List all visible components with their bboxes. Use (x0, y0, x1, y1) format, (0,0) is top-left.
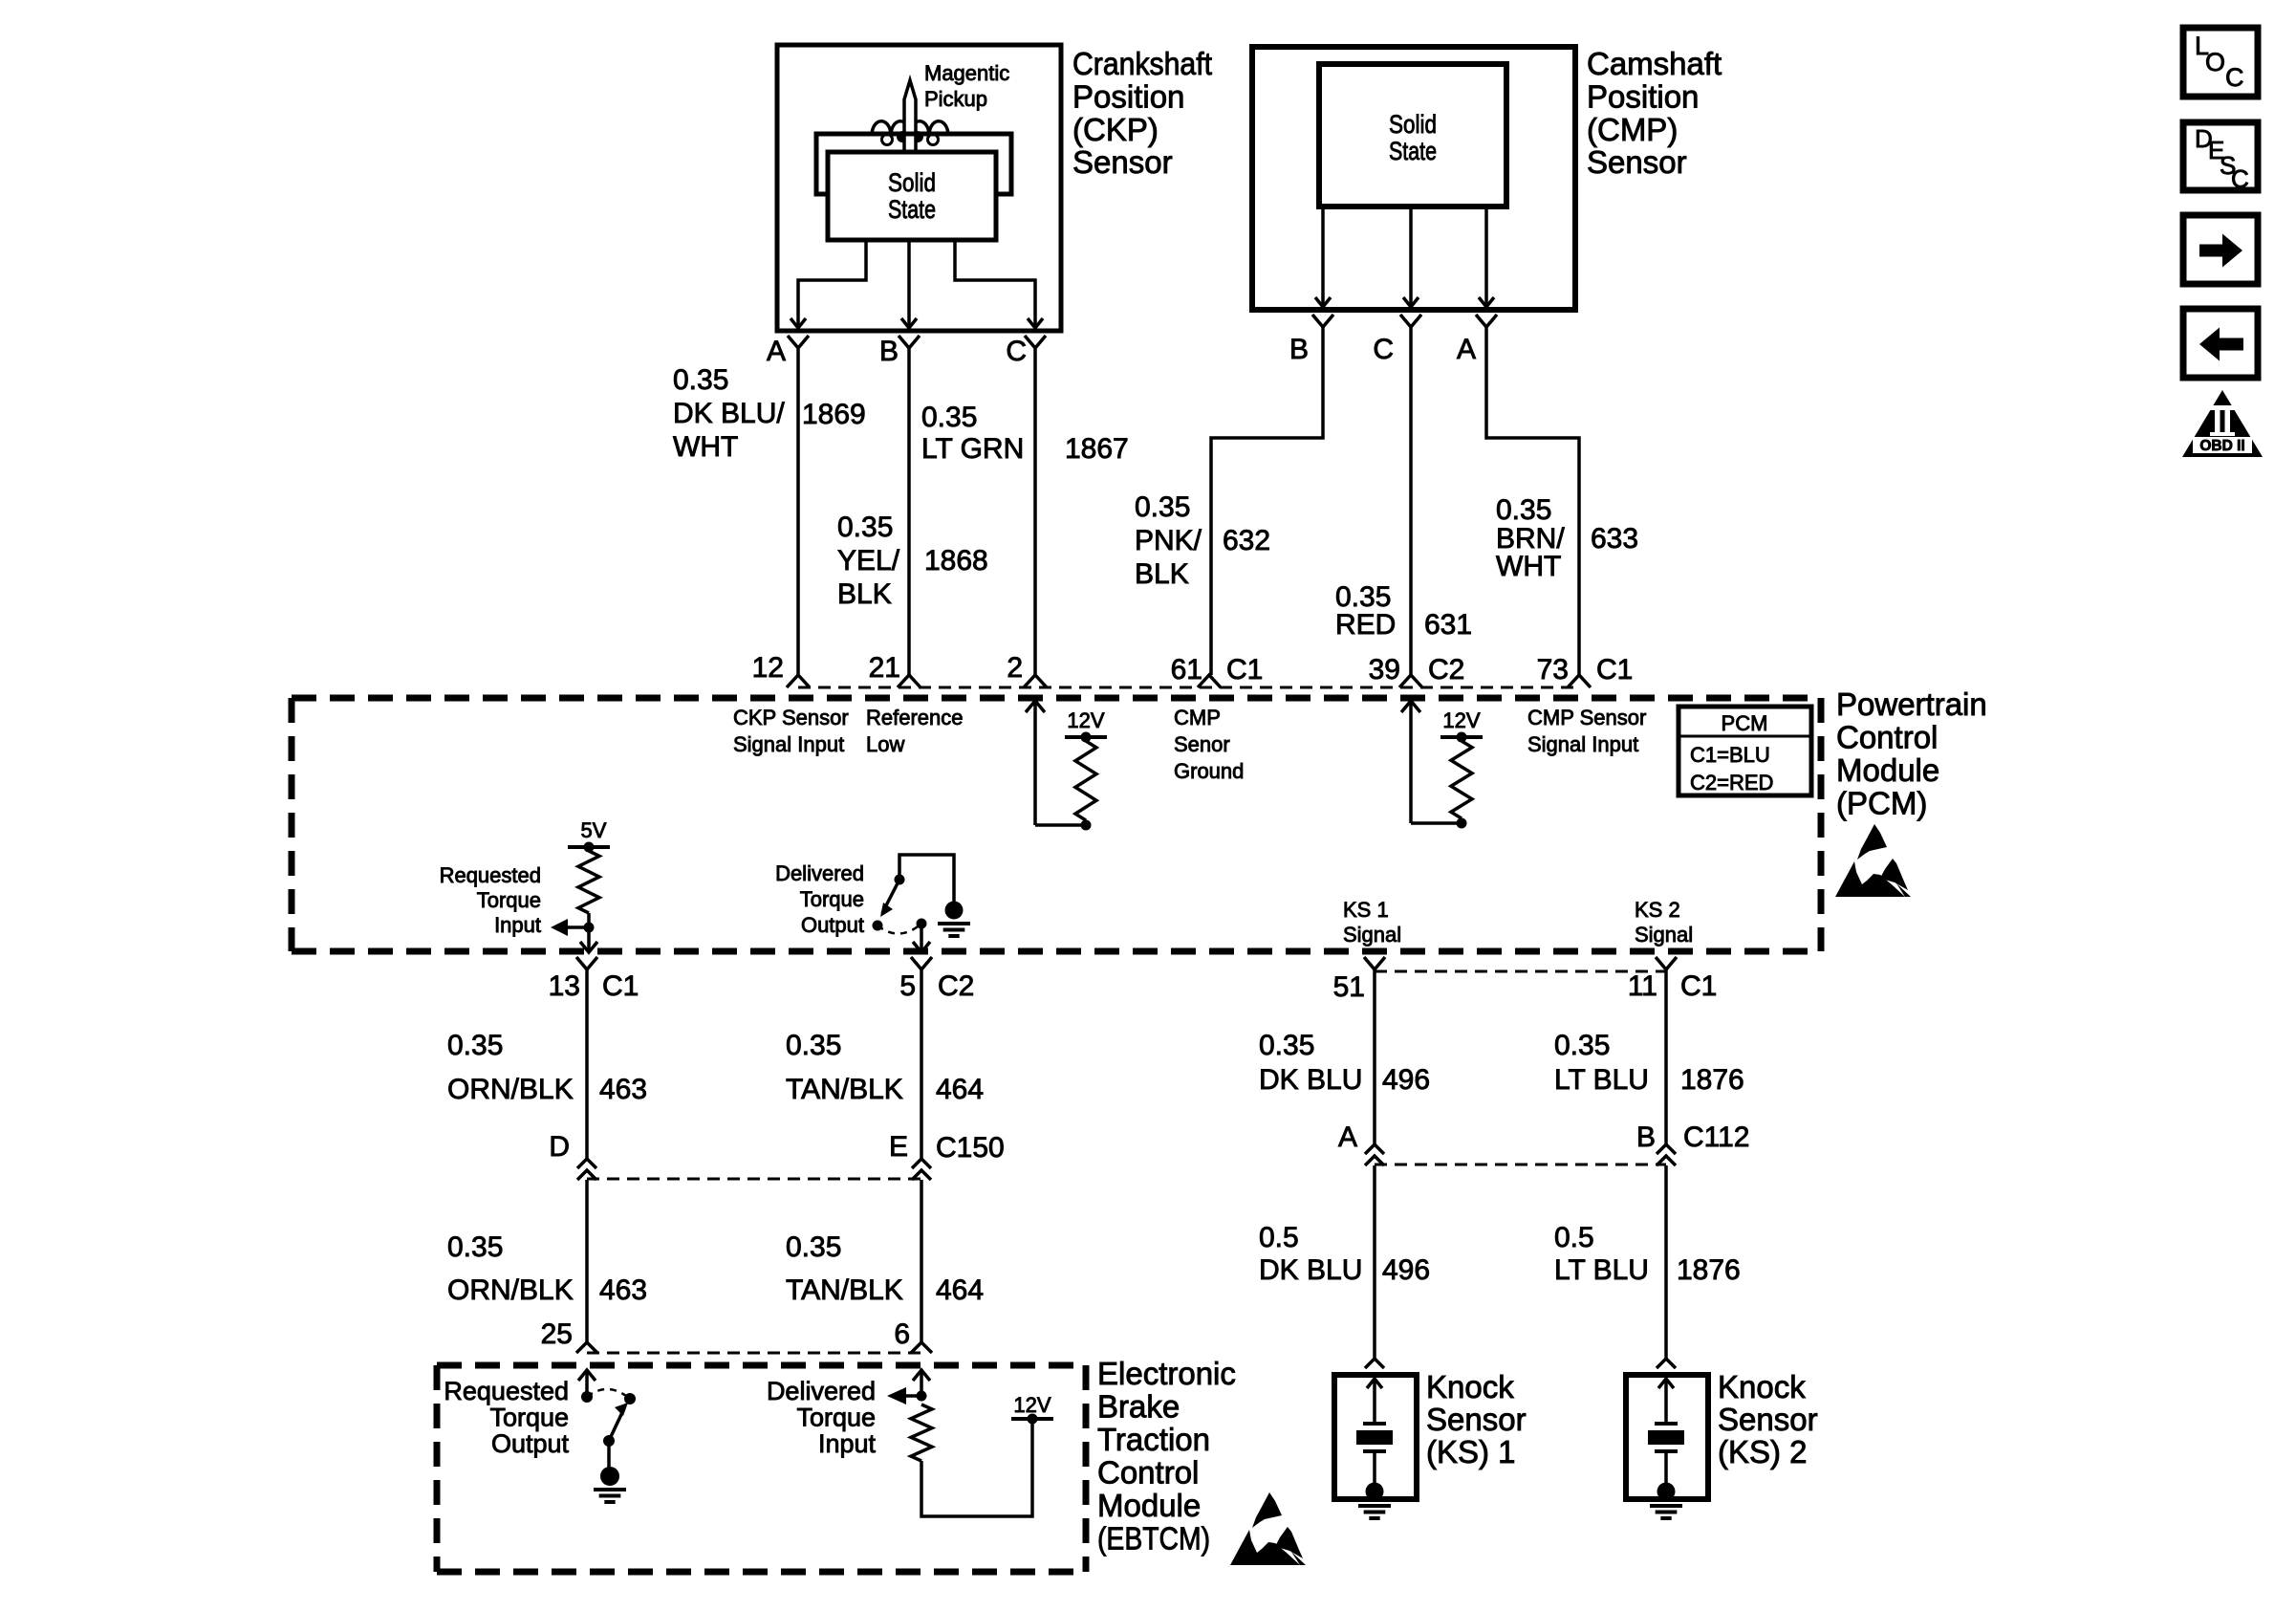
wire 633 BRN/WHT (CMP A to PCM 73) (1486, 327, 1579, 675)
svg-text:632: 632 (1223, 525, 1270, 556)
PCM module dashed border (292, 695, 1821, 702)
svg-text:A: A (1457, 334, 1476, 365)
svg-text:D: D (549, 1131, 570, 1163)
svg-text:C2: C2 (1428, 654, 1464, 686)
svg-text:Magentic: Magentic (924, 61, 1009, 85)
svg-text:0.35: 0.35 (786, 1231, 841, 1263)
wire 464 TAN/BLK lower (920, 1180, 923, 1342)
svg-text:0.35: 0.35 (447, 1030, 503, 1061)
CKP pin B connector (899, 336, 920, 348)
CKP pin C connector (1025, 336, 1046, 348)
svg-text:ORN/BLK: ORN/BLK (447, 1074, 574, 1105)
switch S1 contact dot (873, 921, 883, 931)
wire CMP stub C (1409, 207, 1413, 295)
svg-text:Low: Low (866, 732, 904, 756)
wire CMP stub A (1484, 207, 1488, 295)
svg-text:12V: 12V (1013, 1393, 1051, 1417)
icon OBD II triangle (2182, 390, 2263, 457)
svg-text:1876: 1876 (1677, 1254, 1741, 1286)
svg-text:464: 464 (936, 1074, 984, 1105)
connector C150 pin E (912, 1159, 931, 1168)
svg-text:Position: Position (1072, 79, 1184, 115)
svg-text:Output: Output (491, 1429, 570, 1458)
svg-text:Reference: Reference (866, 706, 964, 729)
svg-text:(EBTCM): (EBTCM) (1097, 1521, 1210, 1557)
wire 1867 LT GRN (CKP C to PCM 2) (1033, 348, 1037, 675)
svg-text:0.35: 0.35 (837, 512, 893, 543)
svg-text:(CMP): (CMP) (1587, 112, 1678, 147)
arrow into pin C(CMP) (1403, 297, 1419, 307)
resistor R2 (12V pull-up CMP) (1451, 741, 1472, 818)
svg-text:2: 2 (1007, 652, 1023, 684)
svg-text:C1: C1 (1596, 654, 1633, 686)
svg-text:Module: Module (1097, 1488, 1201, 1523)
svg-text:Sensor: Sensor (1426, 1402, 1527, 1437)
PCM top pin tent x=1265 (1198, 675, 1221, 687)
KS2 box (1626, 1375, 1708, 1499)
arrow into pin A (791, 318, 806, 328)
svg-text:(KS) 2: (KS) 2 (1718, 1434, 1808, 1469)
svg-text:Input: Input (818, 1429, 877, 1458)
svg-text:C: C (1373, 334, 1394, 365)
wire 631 RED (CMP C to PCM 39) (1409, 327, 1413, 675)
svg-text:A: A (767, 336, 786, 367)
wire 632 PNK/BLK (CMP B to PCM 61) (1211, 327, 1323, 675)
wire 1868 YEL/BLK (CKP B to PCM 21) (907, 348, 911, 675)
switch S2 lever (609, 1408, 624, 1441)
wire CMP stub B (1321, 207, 1325, 295)
svg-text:Brake: Brake (1097, 1389, 1180, 1425)
svg-text:0.35: 0.35 (921, 402, 977, 433)
svg-text:21: 21 (869, 652, 900, 684)
svg-text:Senor: Senor (1174, 732, 1230, 756)
switch S2 wire dot (581, 1391, 593, 1403)
icon forward arrow box (2183, 215, 2258, 284)
resistor R1 (12V pull-up CKP) (1075, 741, 1096, 820)
svg-text:Crankshaft: Crankshaft (1072, 46, 1212, 81)
ESD symbol (EBTCM) (1252, 1492, 1282, 1528)
arrow into pin B (901, 318, 917, 328)
delivered torque arrow up (913, 1370, 930, 1381)
svg-text:Signal Input: Signal Input (733, 732, 844, 756)
svg-text:B: B (1289, 334, 1309, 365)
wire pin2 internal (1026, 701, 1045, 712)
PCM bottom pin Y x=964 (911, 957, 932, 969)
wire to pin 5 (920, 924, 923, 952)
svg-text:C1: C1 (1680, 970, 1717, 1002)
KS2 pin tent (1657, 1359, 1676, 1368)
svg-text:Powertrain: Powertrain (1836, 686, 1987, 722)
svg-text:0.35: 0.35 (786, 1030, 841, 1061)
EBTCM pin 6 tent (911, 1342, 932, 1353)
arrow into pin C (1028, 318, 1043, 328)
svg-text:A: A (1338, 1121, 1357, 1153)
KS1 ground (1358, 1504, 1391, 1508)
KS pins dashed line (1375, 970, 1666, 973)
svg-text:C: C (2231, 164, 2249, 193)
svg-text:WHT: WHT (1496, 551, 1561, 582)
svg-text:11: 11 (1628, 970, 1657, 1002)
CKP sensor outer box (777, 45, 1061, 331)
svg-text:(KS) 1: (KS) 1 (1426, 1434, 1516, 1469)
svg-text:C: C (1006, 336, 1027, 367)
wire 1869 DK BLU/WHT (CKP A to PCM 12) (796, 348, 800, 675)
arrow into pin A(CMP) (1479, 297, 1494, 307)
resistor R4 (EBTCM) (911, 1404, 932, 1461)
requested torque input arrow (557, 925, 589, 929)
EBTCM pin 25 tent (576, 1342, 597, 1353)
pickup bracket frame (816, 134, 1011, 194)
switch S1 dashed arc (877, 924, 921, 934)
switch S1 pivot dot (895, 875, 905, 885)
svg-text:633: 633 (1591, 523, 1638, 555)
svg-text:Control: Control (1097, 1455, 1199, 1491)
svg-text:C2: C2 (938, 970, 974, 1002)
svg-text:B: B (1636, 1121, 1656, 1153)
switch S2 pivot dot (603, 1435, 615, 1447)
svg-text:Torque: Torque (477, 888, 541, 912)
svg-text:CMP Sensor: CMP Sensor (1527, 706, 1646, 729)
CMP sensor outer box (1252, 47, 1575, 310)
KS1 piezo element (1363, 1422, 1386, 1426)
wire 1876 LT BLU upper (1664, 969, 1668, 1144)
svg-text:1867: 1867 (1065, 433, 1129, 465)
svg-text:496: 496 (1382, 1254, 1430, 1286)
CKP pin A connector (788, 336, 809, 348)
KS1 box (1334, 1375, 1417, 1499)
node dot (R2 bottom) (1457, 818, 1467, 829)
12V supply bar (EBTCM) (1011, 1417, 1053, 1421)
svg-text:Position: Position (1587, 79, 1699, 115)
svg-text:LT BLU: LT BLU (1554, 1254, 1649, 1286)
CMP pin C connector (1400, 315, 1421, 327)
KS2 piezo element (1655, 1422, 1678, 1426)
svg-text:12V: 12V (1067, 708, 1104, 732)
svg-text:0.35: 0.35 (1135, 491, 1190, 523)
svg-text:RED: RED (1335, 609, 1396, 641)
svg-text:61: 61 (1171, 654, 1202, 686)
svg-text:DK BLU/: DK BLU/ (673, 398, 785, 429)
svg-text:C1: C1 (602, 970, 639, 1002)
svg-text:(PCM): (PCM) (1836, 786, 1927, 821)
CMP pin A connector (1476, 315, 1497, 327)
svg-text:5: 5 (899, 970, 916, 1002)
svg-text:OBD II: OBD II (2199, 438, 2244, 454)
svg-text:39: 39 (1369, 654, 1400, 686)
KS2 internal arrow (1658, 1379, 1674, 1388)
svg-text:Signal: Signal (1343, 923, 1401, 947)
svg-text:Solid: Solid (888, 168, 936, 197)
wire 1876 LT BLU lower (1664, 1165, 1668, 1359)
svg-text:State: State (1389, 137, 1437, 165)
PCM bottom pin Y x=1743 (1656, 957, 1677, 969)
svg-text:C1=BLU: C1=BLU (1690, 743, 1770, 767)
svg-text:C: C (2225, 63, 2244, 92)
EBTCM module dashed border (437, 1362, 1086, 1369)
svg-text:Electronic: Electronic (1097, 1356, 1236, 1391)
wire R3 to pin13 (587, 913, 591, 952)
PCM top pin tent x=835 (787, 675, 810, 687)
node dot (R1 bottom) (1081, 820, 1092, 831)
PCM bottom pin Y x=614 (576, 957, 597, 969)
PCM connector dashed line (798, 686, 1579, 689)
svg-text:Input: Input (494, 913, 541, 937)
svg-text:631: 631 (1424, 609, 1472, 641)
arrow down to pin 13 (580, 942, 597, 952)
node dot pin5 (917, 919, 927, 929)
svg-text:TAN/BLK: TAN/BLK (786, 1074, 903, 1105)
svg-text:Control: Control (1836, 720, 1938, 755)
delivered torque left arrow (906, 1394, 921, 1398)
wire 464 TAN/BLK upper (920, 969, 923, 1159)
svg-text:DK BLU: DK BLU (1259, 1064, 1362, 1096)
EBTCM pins dashed line (587, 1352, 921, 1355)
PCM bottom pin Y x=1438 (1364, 957, 1385, 969)
PCM top pin tent x=1652 (1568, 675, 1591, 687)
svg-text:C150: C150 (936, 1132, 1005, 1164)
svg-text:Requested: Requested (440, 863, 541, 887)
switch S1 lever (882, 880, 899, 913)
svg-text:Sensor: Sensor (1587, 144, 1687, 180)
svg-text:25: 25 (541, 1318, 573, 1350)
wire 496 DK BLU upper (1373, 969, 1376, 1144)
CKP solid state box (828, 152, 996, 240)
svg-text:13: 13 (549, 970, 580, 1002)
svg-text:State: State (888, 195, 936, 224)
svg-text:Signal Input: Signal Input (1527, 732, 1638, 756)
svg-text:0.35: 0.35 (673, 364, 728, 396)
svg-text:0.35: 0.35 (1259, 1030, 1314, 1061)
svg-text:Solid: Solid (1389, 110, 1437, 139)
svg-text:PNK/: PNK/ (1135, 525, 1202, 556)
12V supply bar (R1) (1065, 735, 1107, 739)
requested torque arrow up (578, 1370, 596, 1381)
svg-text:0.35: 0.35 (447, 1231, 503, 1263)
CMP solid state box (1319, 64, 1506, 207)
connector C112 dashed line (1375, 1164, 1666, 1166)
connector C112 pin B (1657, 1144, 1676, 1154)
PCM top pin tent x=951 (898, 675, 921, 687)
svg-text:1868: 1868 (924, 545, 988, 577)
svg-text:C2=RED: C2=RED (1690, 771, 1773, 795)
svg-text:CKP Sensor: CKP Sensor (733, 706, 849, 729)
svg-text:Pickup: Pickup (924, 87, 987, 111)
CMP pin B connector (1312, 315, 1333, 327)
PCM top pin tent x=1083 (1024, 675, 1047, 687)
svg-text:1876: 1876 (1680, 1064, 1744, 1096)
switch S2 dashed arc (587, 1389, 630, 1399)
svg-text:Torque: Torque (800, 887, 864, 911)
svg-text:0.35: 0.35 (1554, 1030, 1610, 1061)
svg-text:0.35: 0.35 (1496, 494, 1551, 526)
svg-text:Signal: Signal (1635, 923, 1693, 947)
svg-text:BLK: BLK (1135, 558, 1189, 590)
svg-text:Traction: Traction (1097, 1422, 1210, 1457)
wire pin39 internal (1401, 701, 1420, 712)
wire CKP stub B (907, 240, 911, 316)
svg-text:Torque: Torque (796, 1404, 876, 1432)
svg-text:12V: 12V (1442, 708, 1480, 732)
svg-text:LT BLU: LT BLU (1554, 1064, 1649, 1096)
svg-text:Ground: Ground (1174, 759, 1244, 783)
arrow into pin B(CMP) (1315, 297, 1331, 307)
svg-text:Knock: Knock (1718, 1369, 1806, 1404)
KS1 internal arrow (1367, 1379, 1382, 1388)
connector C150 dashed line (587, 1178, 921, 1181)
svg-text:Sensor: Sensor (1072, 144, 1173, 180)
wire 463 ORN/BLK lower (585, 1180, 589, 1342)
svg-text:Delivered: Delivered (775, 861, 864, 885)
svg-text:C1: C1 (1226, 654, 1263, 686)
svg-text:B: B (879, 336, 899, 367)
switch S1 bracket (899, 855, 954, 902)
svg-text:Module: Module (1836, 752, 1939, 788)
svg-text:BLK: BLK (837, 578, 892, 610)
resistor R3 (5V pull-up) (578, 851, 599, 913)
svg-text:5V: 5V (581, 818, 607, 842)
svg-text:KS 1: KS 1 (1343, 898, 1389, 922)
svg-text:Camshaft: Camshaft (1587, 46, 1722, 81)
svg-text:O: O (2205, 48, 2225, 76)
PCM top pin tent x=1476 (1399, 675, 1422, 687)
svg-text:1869: 1869 (802, 399, 866, 430)
ground G1 (PCM) (945, 902, 964, 920)
svg-text:CMP: CMP (1174, 706, 1221, 729)
svg-text:KS 2: KS 2 (1635, 898, 1680, 922)
12V supply bar (R2) (1440, 735, 1483, 739)
svg-text:ORN/BLK: ORN/BLK (447, 1274, 574, 1306)
svg-text:C112: C112 (1683, 1121, 1750, 1153)
svg-text:73: 73 (1537, 654, 1569, 686)
icon back arrow box (2183, 309, 2258, 378)
KS2 ground ball (1657, 1483, 1676, 1501)
svg-text:E: E (889, 1131, 908, 1163)
pickup coil L1 (872, 121, 948, 135)
connector C112 pin A (1365, 1144, 1384, 1154)
svg-text:463: 463 (599, 1274, 647, 1306)
svg-text:YEL/: YEL/ (837, 545, 900, 577)
pickup needle (904, 80, 916, 153)
svg-text:Torque: Torque (489, 1404, 569, 1432)
svg-text:0.5: 0.5 (1259, 1222, 1299, 1253)
svg-text:6: 6 (894, 1318, 910, 1350)
wire R4 to 12V (921, 1419, 1032, 1516)
svg-text:LT GRN: LT GRN (921, 433, 1024, 465)
switch S2 contact dot (624, 1393, 636, 1404)
KS1 ground ball (1366, 1483, 1384, 1501)
svg-text:0.5: 0.5 (1554, 1222, 1594, 1253)
svg-text:PCM: PCM (1722, 711, 1768, 735)
svg-text:463: 463 (599, 1074, 647, 1105)
svg-text:Requested: Requested (444, 1377, 569, 1405)
wire CKP stub C (955, 240, 1035, 316)
KS1 pin tent (1365, 1359, 1384, 1368)
connector C150 pin D (577, 1159, 596, 1168)
svg-text:51: 51 (1333, 971, 1365, 1003)
wire 496 DK BLU lower (1373, 1165, 1376, 1359)
svg-text:WHT: WHT (673, 431, 738, 463)
svg-text:496: 496 (1382, 1064, 1430, 1096)
svg-text:464: 464 (936, 1274, 984, 1306)
wire CKP stub A (798, 240, 866, 316)
wire 463 ORN/BLK upper (585, 969, 589, 1159)
svg-text:12: 12 (752, 652, 784, 684)
KS2 ground (1650, 1504, 1682, 1508)
ground G2 (EBTCM) (607, 1441, 611, 1469)
PCM legend box (1679, 707, 1811, 795)
svg-text:Output: Output (801, 913, 864, 937)
ESD symbol (PCM) (1857, 824, 1887, 860)
svg-text:Knock: Knock (1426, 1369, 1514, 1404)
icon DESC box (2183, 122, 2258, 190)
svg-text:Sensor: Sensor (1718, 1402, 1818, 1437)
icon LOC box (2183, 28, 2258, 97)
svg-text:Delivered: Delivered (767, 1377, 876, 1405)
svg-text:DK BLU: DK BLU (1259, 1254, 1362, 1286)
5V supply bar (568, 845, 610, 849)
svg-text:(CKP): (CKP) (1072, 112, 1159, 147)
svg-text:TAN/BLK: TAN/BLK (786, 1274, 903, 1306)
